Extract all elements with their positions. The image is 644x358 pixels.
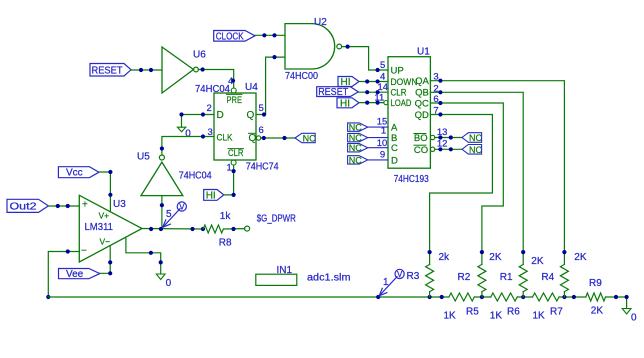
wire Vcc to U3 V+ — [99, 172, 110, 212]
junction dot — [438, 135, 442, 139]
junction dot — [190, 227, 194, 231]
svg-text:A: A — [391, 123, 398, 134]
svg-text:4: 4 — [228, 76, 233, 87]
svg-text:14: 14 — [378, 82, 389, 93]
junction dot — [480, 250, 484, 254]
ground near U4 D input — [177, 115, 191, 140]
svg-text:CLOCK: CLOCK — [216, 31, 244, 42]
wire Vee to U3 V- — [100, 246, 110, 274]
NC label for CO — [462, 145, 482, 155]
port HI to U4 CLR — [204, 190, 224, 202]
wire CO to NC — [435, 148, 462, 150]
wire RESET to CLR pin 14 — [358, 91, 388, 93]
svg-text:QD: QD — [415, 110, 429, 121]
svg-text:NC: NC — [303, 134, 316, 144]
wire QC to R2 column — [430, 103, 503, 252]
svg-text:2k: 2k — [439, 252, 451, 263]
junction dot — [562, 250, 566, 254]
inverter U5 — [137, 152, 212, 196]
ground at U3 — [156, 274, 171, 289]
NC label C — [348, 143, 368, 153]
junction dot — [625, 295, 629, 299]
junction dot — [201, 112, 205, 116]
svg-text:adc1.slm: adc1.slm — [307, 273, 351, 284]
wire U5 output to U4 CLK — [162, 137, 214, 156]
svg-text:R2: R2 — [458, 272, 471, 283]
wire QB to R1 column — [430, 92, 523, 252]
junction dot — [521, 250, 525, 254]
resistor R7 1K horizontal — [533, 293, 564, 322]
op-amp U3 LM311 — [79, 195, 142, 262]
svg-text:CLK: CLK — [217, 132, 234, 143]
svg-text:HI: HI — [340, 98, 350, 109]
svg-text:74HC193: 74HC193 — [394, 174, 429, 185]
svg-text:CO: CO — [414, 145, 428, 156]
wire NC to B pin 1 — [368, 137, 388, 139]
svg-text:HI: HI — [206, 190, 216, 201]
svg-text:1K: 1K — [490, 311, 503, 322]
svg-text:4: 4 — [380, 71, 385, 82]
svg-text:+: + — [82, 200, 88, 211]
junction dot — [272, 55, 276, 59]
NC label A — [348, 123, 368, 133]
junction dot pin 4 — [231, 79, 235, 83]
flip-flop U4 74HC74 — [207, 76, 280, 174]
resistor R3 2k vertical — [407, 252, 451, 297]
junction dot — [376, 295, 380, 299]
svg-text:2K: 2K — [489, 252, 502, 263]
resistor R8 1k — [203, 211, 232, 248]
svg-text:12: 12 — [437, 139, 448, 150]
svg-text:0: 0 — [631, 312, 637, 323]
svg-text:CLR: CLR — [228, 148, 244, 159]
wire NC to D pin 9 — [368, 159, 388, 161]
svg-text:5: 5 — [259, 103, 264, 114]
junction dot — [572, 295, 576, 299]
nand gate U2 74HC00 — [285, 17, 342, 82]
junction dot — [160, 146, 164, 150]
svg-text:DOWN: DOWN — [391, 77, 418, 88]
wire QA to R4 column — [430, 81, 564, 252]
junction dot — [262, 33, 266, 37]
svg-text:UP: UP — [391, 65, 404, 76]
svg-text:V+: V+ — [99, 211, 110, 221]
wire U4 Qbar to NC — [261, 137, 295, 139]
wire BO to NC — [435, 137, 462, 139]
svg-text:74HC04: 74HC04 — [179, 171, 212, 182]
svg-text:$G_DPWR: $G_DPWR — [257, 213, 296, 224]
svg-text:Out2: Out2 — [10, 202, 38, 213]
svg-text:1K: 1K — [533, 311, 546, 322]
svg-text:NC: NC — [349, 155, 362, 165]
wire QD to R3 column — [430, 115, 493, 253]
wire U4 Q to U2 lower input — [256, 57, 285, 114]
svg-text:Q: Q — [247, 110, 255, 121]
junction dot — [108, 260, 112, 264]
junction dot — [376, 101, 380, 105]
junction dot — [521, 295, 525, 299]
NC label D — [348, 155, 368, 165]
svg-text:NC: NC — [349, 123, 362, 133]
junction dot — [272, 33, 276, 37]
svg-text:2K: 2K — [531, 256, 544, 267]
svg-text:U3: U3 — [113, 199, 126, 210]
svg-text:6: 6 — [259, 125, 264, 136]
junction dot — [201, 134, 205, 138]
voltage probe 1 — [379, 269, 404, 296]
junction dot — [66, 249, 70, 253]
junction dot — [149, 227, 153, 231]
svg-text:V−: V− — [100, 237, 111, 247]
wire HI to U4 CLR pin 1 — [224, 165, 234, 195]
bottom bus wire — [48, 297, 626, 309]
svg-text:LM311: LM311 — [85, 222, 114, 233]
junction dot — [365, 90, 369, 94]
svg-text:2K: 2K — [591, 305, 604, 316]
junction dot — [149, 251, 153, 255]
wire U3 output to R8 — [142, 228, 203, 231]
svg-text:1k: 1k — [220, 211, 232, 222]
svg-text:BO: BO — [414, 133, 428, 144]
svg-text:5: 5 — [380, 60, 385, 71]
open pin $G_DPWR — [245, 226, 250, 231]
junction dot — [262, 112, 266, 116]
svg-text:Vcc: Vcc — [66, 168, 83, 179]
svg-text:11: 11 — [374, 92, 384, 103]
junction dot — [438, 79, 442, 83]
port Vee — [59, 269, 100, 281]
svg-text:U6: U6 — [193, 50, 206, 61]
junction dot — [346, 45, 350, 49]
svg-text:9: 9 — [380, 150, 385, 161]
junction dot — [438, 101, 442, 105]
junction dot — [232, 169, 236, 173]
junction dot — [56, 204, 60, 208]
junction dot — [449, 135, 453, 139]
wire U3 ground pin — [126, 237, 161, 274]
svg-text:1: 1 — [383, 277, 389, 288]
junction dot — [232, 193, 236, 197]
port RESET to U1 CLR — [317, 87, 359, 98]
port RESET — [90, 64, 131, 77]
svg-text:RESET: RESET — [318, 87, 348, 98]
junction dot — [440, 295, 444, 299]
svg-text:Vee: Vee — [66, 269, 84, 280]
svg-text:−: − — [81, 246, 87, 257]
svg-text:D: D — [217, 110, 224, 121]
resistor R2 2K vertical — [458, 252, 502, 297]
junction dot — [231, 227, 235, 231]
svg-text:U4: U4 — [245, 82, 258, 93]
wire Out2 to U3 plus input — [48, 205, 79, 207]
junction dot — [376, 68, 380, 72]
junction dot — [108, 170, 112, 174]
svg-text:13: 13 — [437, 127, 448, 138]
svg-text:NC: NC — [469, 133, 482, 143]
junction dot — [376, 79, 380, 83]
wire R8 to open pin — [223, 228, 244, 230]
wire NC to C pin 10 — [368, 147, 388, 149]
svg-text:R7: R7 — [550, 307, 563, 318]
svg-text:R1: R1 — [500, 272, 513, 283]
svg-text:NC: NC — [349, 143, 362, 153]
junction dot — [179, 112, 183, 116]
junction dot — [376, 90, 380, 94]
svg-text:CLR: CLR — [391, 88, 407, 99]
svg-text:R8: R8 — [219, 238, 232, 249]
svg-text:QC: QC — [415, 98, 429, 109]
NC label B — [348, 133, 368, 143]
svg-text:R3: R3 — [407, 271, 420, 282]
svg-text:QB: QB — [415, 88, 429, 99]
port CLOCK — [214, 31, 255, 43]
junction dot — [201, 227, 205, 231]
wire U5 input — [161, 196, 163, 229]
resistor R9 2K horizontal — [586, 278, 606, 317]
stimulus box IN1 adc1.slm — [256, 265, 351, 285]
junction dot — [201, 67, 205, 71]
svg-text:NC: NC — [469, 145, 482, 155]
svg-text:2: 2 — [207, 103, 212, 114]
svg-text:LOAD: LOAD — [391, 98, 412, 109]
junction dot — [614, 295, 618, 299]
svg-text:R5: R5 — [466, 307, 479, 318]
junction dot — [282, 136, 286, 140]
wire NC to A pin 15 — [368, 126, 388, 128]
junction dot — [149, 68, 153, 72]
resistor R1 2K vertical — [500, 252, 544, 297]
junction dot — [562, 295, 566, 299]
port Out2 — [7, 199, 48, 212]
port HI to U1 LOAD — [337, 98, 359, 110]
resistor R6 1K horizontal — [490, 293, 520, 322]
svg-text:5: 5 — [166, 209, 172, 220]
junction dot — [365, 101, 369, 105]
svg-text:U5: U5 — [137, 152, 150, 163]
svg-text:U1: U1 — [417, 47, 430, 58]
wire RESET to U6 input — [131, 69, 162, 71]
counter U1 74HC193 — [374, 47, 447, 186]
svg-text:1: 1 — [227, 163, 232, 174]
junction dot — [262, 136, 266, 140]
svg-text:IN1: IN1 — [277, 265, 293, 276]
junction dot — [365, 79, 369, 83]
wire U6 output to U4 PRE — [198, 70, 233, 89]
junction dot — [66, 204, 70, 208]
svg-text:V: V — [179, 202, 185, 211]
voltage probe 5 — [163, 202, 187, 227]
svg-text:U2: U2 — [314, 17, 327, 28]
junction dot — [159, 227, 163, 231]
svg-text:V: V — [397, 270, 403, 279]
junction dot — [438, 147, 442, 151]
svg-text:74HC74: 74HC74 — [246, 162, 279, 173]
junction dot — [480, 295, 484, 299]
junction dot — [428, 250, 432, 254]
junction dot — [438, 112, 442, 116]
svg-text:0: 0 — [185, 129, 191, 140]
NC label for BO — [462, 133, 482, 143]
NC label for U4 Qbar — [295, 133, 316, 143]
svg-text:2K: 2K — [574, 252, 587, 263]
wire HI to LOAD pin 11 — [359, 102, 384, 104]
svg-text:C: C — [391, 143, 398, 154]
svg-text:1K: 1K — [444, 311, 457, 322]
junction dot — [139, 68, 143, 72]
svg-text:D: D — [391, 155, 398, 166]
junction dot — [46, 295, 50, 299]
wire CLOCK to U2 input — [255, 34, 285, 36]
junction dot — [108, 271, 112, 275]
resistor R5 1K horizontal — [444, 293, 480, 322]
junction dot — [108, 193, 112, 197]
junction dot — [449, 147, 453, 151]
junction dot — [159, 260, 163, 264]
junction dot — [160, 203, 164, 207]
ground at bottom right — [622, 309, 637, 324]
wire HI to DOWN pin 4 — [359, 81, 388, 83]
svg-text:74HC00: 74HC00 — [285, 71, 318, 82]
inverter U6 — [162, 47, 230, 95]
svg-text:NC: NC — [349, 133, 362, 143]
port HI to U1 DOWN — [338, 77, 359, 89]
svg-text:Q: Q — [249, 133, 257, 144]
wire U2 output to U1 UP pin 5 — [342, 47, 388, 70]
junction dot — [428, 295, 432, 299]
wire to U4 D pin — [182, 114, 215, 116]
wire U3 minus input — [48, 252, 79, 298]
svg-text:R6: R6 — [507, 307, 520, 318]
svg-text:R9: R9 — [589, 278, 602, 289]
svg-text:PRE: PRE — [227, 95, 243, 106]
svg-text:RESET: RESET — [92, 65, 123, 76]
svg-text:R4: R4 — [541, 272, 554, 283]
svg-text:0: 0 — [166, 278, 172, 289]
resistor R4 2K vertical — [541, 252, 586, 297]
svg-text:QA: QA — [415, 76, 429, 87]
port Vcc — [58, 167, 99, 179]
junction dot — [438, 90, 442, 94]
